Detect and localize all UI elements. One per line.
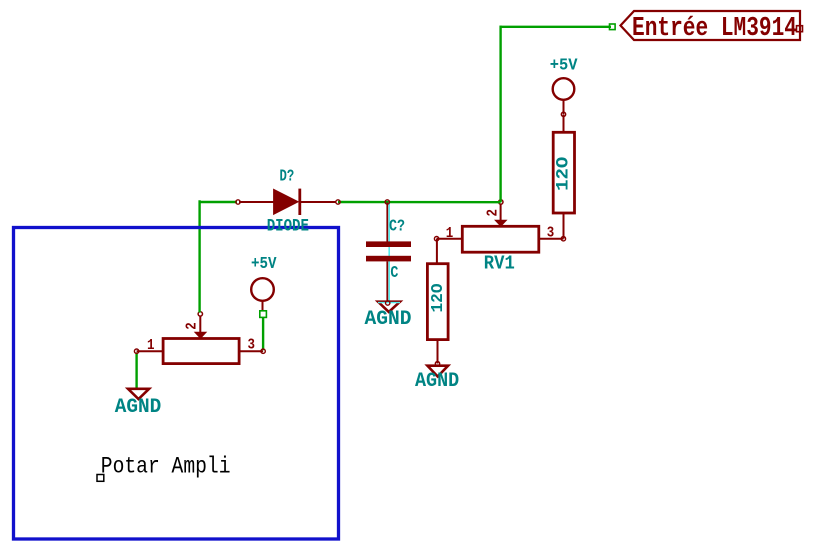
label anchor square (dark red) xyxy=(797,26,803,32)
capacitor top pin end circle on wire xyxy=(385,200,389,204)
resistor R 120 (lower, vertical) xyxy=(427,239,448,364)
svg-text:C: C xyxy=(390,263,398,282)
svg-text:3: 3 xyxy=(547,224,555,241)
power symbol +5V (top right) xyxy=(550,55,578,114)
svg-text:2: 2 xyxy=(184,322,201,330)
svg-text:DIODE: DIODE xyxy=(267,218,309,237)
svg-text:3: 3 xyxy=(248,336,256,353)
svg-text:Entrée LM3914: Entrée LM3914 xyxy=(632,14,797,44)
svg-text:2: 2 xyxy=(485,209,502,217)
svg-text:AGND: AGND xyxy=(365,308,412,331)
AGND power symbol under capacitor xyxy=(378,302,400,312)
AGND pin end circle (capacitor) xyxy=(386,301,390,305)
svg-text:C?: C? xyxy=(389,216,405,235)
svg-text:12O: 12O xyxy=(554,157,574,191)
pot pin 2 end circle at wire end xyxy=(198,312,202,316)
pot pin 1 end circle xyxy=(134,349,138,353)
AGND power symbol (inside sheet) xyxy=(128,389,149,399)
hierarchical sheet Potar Ampli xyxy=(14,228,339,540)
svg-text:+5V: +5V xyxy=(251,254,277,273)
wire from diode cathode to RV1 pin2 node xyxy=(338,201,501,204)
diode anode pin end circle xyxy=(236,200,240,204)
capacitor C? xyxy=(366,203,411,303)
wire pot pin 1 to AGND xyxy=(135,352,137,388)
wire from diode anode to left corner xyxy=(200,201,237,203)
hierarchical label Entrée LM3914 shape xyxy=(621,11,801,40)
svg-text:AGND: AGND xyxy=(415,370,459,393)
svg-text:RV1: RV1 xyxy=(484,253,515,275)
svg-text:12O: 12O xyxy=(428,283,447,312)
RV1 pin 3 end circle xyxy=(561,237,565,241)
svg-text:1: 1 xyxy=(147,337,155,354)
potentiometer (inside sheet) body xyxy=(137,316,264,364)
svg-text:D?: D? xyxy=(280,167,295,186)
RV1 pin 2 end circle at wire corner xyxy=(499,200,503,204)
power symbol +5V (inside sheet) xyxy=(251,254,277,311)
wire +5V square to pot pin 3 xyxy=(262,317,264,350)
wire vertical left corner down to sheet pot pin 2 xyxy=(198,200,200,312)
svg-text:AGND: AGND xyxy=(115,396,162,419)
pin end circle at +5V / R pin junction xyxy=(561,112,565,116)
resistor R 120 (top, vertical) xyxy=(553,114,574,238)
AGND power symbol under lower resistor xyxy=(427,366,448,377)
svg-text:+5V: +5V xyxy=(550,55,578,74)
wire vertical from top corner down to RV1 pin 2 xyxy=(499,26,501,203)
wire end square (green) below +5V xyxy=(260,311,267,318)
wire end square (green) at label connection xyxy=(610,24,616,30)
pot pin 3 end circle xyxy=(261,349,265,353)
sheet name anchor square xyxy=(97,475,104,482)
svg-text:1: 1 xyxy=(446,225,454,242)
wire net to hierarchical label (horizontal top) xyxy=(500,26,612,28)
diode D? xyxy=(239,189,337,215)
potentiometer RV1 body xyxy=(437,204,564,253)
diode cathode pin end circle xyxy=(336,200,340,204)
AGND pin end circle (lower resistor) xyxy=(435,362,439,366)
svg-text:Potar Ampli: Potar Ampli xyxy=(101,454,231,480)
RV1 pin 1 end circle xyxy=(434,237,438,241)
